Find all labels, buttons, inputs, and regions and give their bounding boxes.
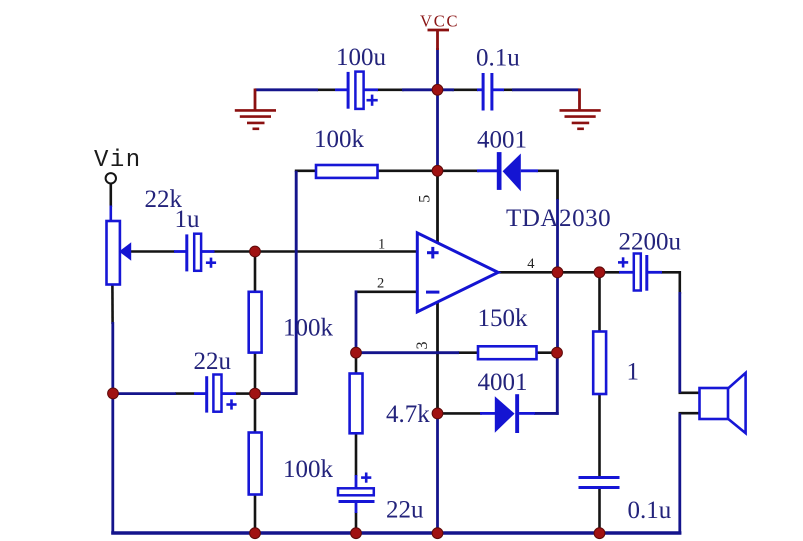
svg-text:4001: 4001 — [477, 126, 527, 153]
svg-text:22u: 22u — [386, 496, 424, 523]
svg-text:100k: 100k — [283, 456, 334, 483]
svg-text:TDA2030: TDA2030 — [506, 205, 611, 232]
svg-text:3: 3 — [414, 342, 431, 350]
svg-text:22u: 22u — [194, 348, 232, 375]
svg-text:4.7k: 4.7k — [386, 401, 430, 428]
svg-text:150k: 150k — [478, 305, 529, 332]
svg-text:Vin: Vin — [94, 147, 142, 174]
svg-text:1u: 1u — [175, 206, 201, 233]
svg-text:1: 1 — [378, 236, 385, 252]
svg-text:100u: 100u — [336, 44, 387, 71]
svg-text:0.1u: 0.1u — [628, 497, 672, 524]
svg-text:100k: 100k — [283, 315, 334, 342]
svg-text:4: 4 — [527, 256, 535, 272]
svg-text:5: 5 — [417, 195, 434, 203]
svg-text:2200u: 2200u — [619, 229, 682, 256]
svg-text:100k: 100k — [314, 126, 365, 153]
svg-text:4001: 4001 — [478, 369, 528, 396]
svg-text:0.1u: 0.1u — [476, 45, 520, 72]
svg-text:1: 1 — [627, 358, 640, 385]
svg-text:2: 2 — [377, 275, 384, 291]
svg-text:VCC: VCC — [420, 12, 459, 31]
